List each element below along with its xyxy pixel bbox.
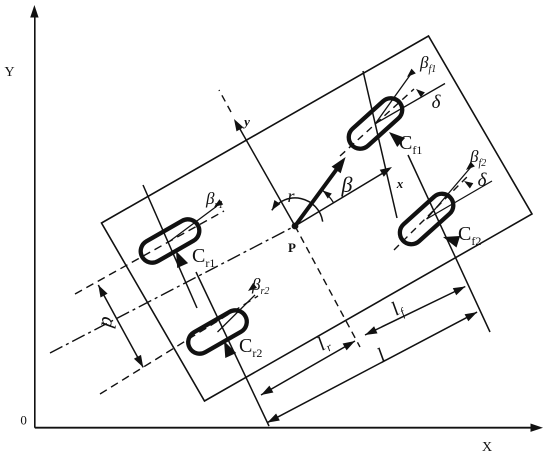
svg-text:r: r: [287, 186, 295, 206]
svg-text:X: X: [482, 440, 492, 455]
svg-text:0: 0: [20, 413, 27, 428]
svg-text:δ: δ: [478, 170, 488, 191]
svg-text:x: x: [396, 176, 404, 191]
svg-text:β: β: [341, 172, 353, 197]
svg-text:δ: δ: [432, 92, 442, 113]
svg-text:P: P: [288, 240, 296, 255]
svg-text:Y: Y: [5, 65, 15, 80]
svg-text:y: y: [242, 114, 250, 129]
